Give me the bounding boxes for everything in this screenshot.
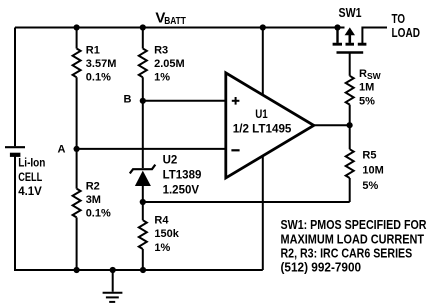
wire feedback R5 to zener anode [143, 201, 350, 203]
resistor R1 [73, 49, 81, 78]
svg-text:LT1389: LT1389 [163, 170, 202, 182]
svg-text:TO: TO [392, 11, 406, 26]
transistor SW1 PMOS: body arrow [345, 27, 355, 35]
svg-text:150k: 150k [154, 228, 179, 240]
wire R1 to R2 through node A [76, 77, 78, 188]
svg-text:0.1%: 0.1% [86, 72, 111, 84]
node dot top rail R1 [74, 24, 80, 30]
svg-text:U1: U1 [255, 109, 268, 121]
transistor SW1 PMOS: source stub [336, 28, 338, 43]
wire zener anode to R4 [142, 186, 144, 220]
svg-text:LOAD: LOAD [392, 25, 421, 40]
transistor SW1 PMOS: gate plate [337, 51, 364, 54]
zener diode U2 cathode bar [130, 165, 156, 174]
battery negative plate [10, 153, 21, 157]
label R3 value [154, 44, 185, 83]
svg-text:3M: 3M [86, 194, 101, 206]
op-amp minus input symbol [231, 149, 239, 151]
svg-text:1%: 1% [154, 242, 170, 254]
svg-text:1%: 1% [154, 71, 170, 83]
svg-text:Li-Ion: Li-Ion [18, 157, 45, 169]
wire SW1 gate to RSW [349, 54, 351, 76]
svg-text:3.57M: 3.57M [86, 58, 117, 70]
label U2 LT1389 [163, 154, 202, 196]
wire top rail VBATT [15, 27, 345, 29]
wire node B to op-amp plus input [143, 100, 226, 102]
node dot top rail op-amp supply [260, 24, 266, 30]
node dot SW1 source [334, 24, 340, 30]
svg-text:2.05M: 2.05M [154, 58, 185, 70]
svg-text:5%: 5% [359, 95, 375, 107]
wire node A to op-amp minus input [77, 148, 226, 150]
wire R4 bottom [142, 249, 144, 270]
ground symbol [103, 270, 123, 302]
svg-text:R4: R4 [154, 215, 169, 227]
node dot bottom rail R4 [140, 267, 146, 273]
node dot bottom rail ground [110, 267, 116, 273]
resistor RSW [346, 76, 354, 105]
svg-text:5%: 5% [362, 180, 378, 192]
zener diode U2 anode triangle [135, 171, 151, 186]
label R5 value [362, 149, 383, 192]
svg-text:B: B [124, 94, 132, 106]
svg-text:CELL: CELL [18, 172, 42, 184]
wire battery negative lead [14, 157, 16, 272]
node A junction [74, 146, 80, 152]
node dot zener anode [140, 199, 146, 205]
node dot op-amp output [347, 122, 353, 128]
svg-text:(512) 992-7900: (512) 992-7900 [281, 260, 362, 275]
wire R1 top [76, 28, 78, 49]
transistor SW1 PMOS: source contact bar [333, 43, 342, 46]
resistor R2 [73, 189, 81, 218]
wire op-amp V- supply to bottom rail [262, 155, 264, 270]
svg-text:U2: U2 [163, 154, 178, 166]
svg-text:SW1: SW1 [339, 5, 362, 20]
wire bottom rail [15, 269, 263, 271]
net label VBATT [155, 9, 186, 27]
node dot bottom rail R2 [74, 267, 80, 273]
svg-text:1/2 LT1495: 1/2 LT1495 [233, 124, 292, 136]
label U1 LT1495 [233, 109, 292, 136]
wire node B to zener U2 [142, 77, 144, 168]
wire R2 bottom [76, 217, 78, 270]
svg-text:R3: R3 [154, 44, 168, 56]
label RSW value [359, 68, 382, 107]
svg-text:R1: R1 [86, 45, 100, 57]
wire R3 top [142, 28, 144, 49]
resistor R3 [139, 49, 147, 78]
transistor SW1 PMOS: body contact bar [346, 43, 355, 46]
svg-text:RSW: RSW [359, 68, 382, 81]
op-amp plus input symbol [232, 97, 240, 105]
svg-text:0.1%: 0.1% [86, 207, 111, 219]
svg-text:A: A [58, 144, 66, 156]
svg-text:1.250V: 1.250V [163, 185, 200, 197]
svg-text:10M: 10M [362, 164, 383, 176]
wire RSW to R5 through output node [349, 105, 351, 150]
svg-text:R2, R3: IRC CAR6 SERIES: R2, R3: IRC CAR6 SERIES [281, 245, 413, 260]
svg-text:SW1: PMOS SPECIFIED FOR: SW1: PMOS SPECIFIED FOR [281, 217, 427, 232]
label TO LOAD [392, 11, 421, 40]
label Li-Ion cell [18, 157, 45, 198]
wire battery positive lead [14, 28, 16, 147]
svg-text:4.1V: 4.1V [18, 186, 42, 198]
wire R5 bottom [349, 178, 351, 202]
svg-text:BATT: BATT [164, 15, 186, 27]
resistor R5 [346, 149, 354, 178]
svg-text:MAXIMUM LOAD CURRENT: MAXIMUM LOAD CURRENT [281, 231, 425, 246]
wire op-amp output [314, 124, 350, 126]
label R1 value [86, 45, 117, 84]
op-amp U1 triangle [226, 73, 314, 178]
svg-text:1M: 1M [359, 82, 374, 94]
note text block [281, 217, 427, 274]
svg-text:R2: R2 [86, 180, 100, 192]
battery positive plate [5, 146, 25, 148]
label R4 value [154, 215, 179, 254]
label R2 value [86, 180, 111, 219]
node B junction [140, 98, 146, 104]
resistor R4 [139, 220, 147, 249]
wire SW1 drain to load [362, 28, 387, 44]
node dot top rail R3 [140, 24, 146, 30]
transistor SW1 PMOS: drain contact bar [358, 43, 367, 46]
wire op-amp V+ supply from rail [262, 28, 264, 96]
svg-text:R5: R5 [362, 149, 376, 161]
